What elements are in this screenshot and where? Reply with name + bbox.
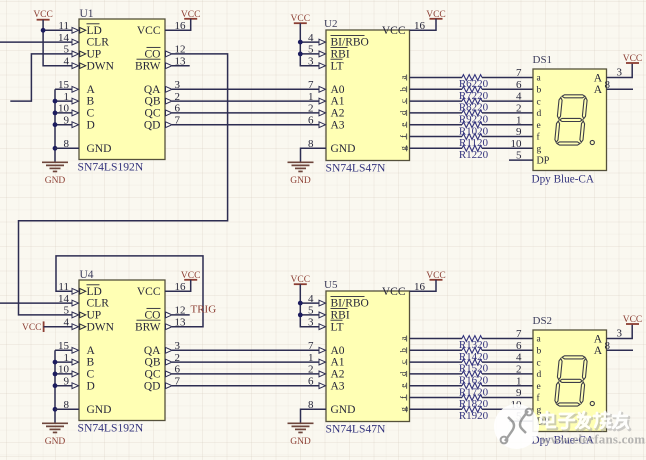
svg-text:VCC: VCC	[137, 25, 161, 37]
svg-text:VCC: VCC	[33, 10, 53, 20]
wire	[300, 302, 319, 304]
wire	[300, 41, 319, 43]
U5 pin 1 (A1)	[308, 352, 326, 365]
svg-text:SN74LS47N: SN74LS47N	[326, 162, 387, 175]
wire	[55, 112, 72, 114]
wire UP feed	[10, 54, 72, 101]
svg-text:1: 1	[516, 375, 522, 387]
svg-text:b: b	[537, 86, 542, 96]
wire DWN	[44, 326, 73, 328]
svg-text:3: 3	[617, 327, 623, 339]
svg-text:A3: A3	[331, 380, 345, 392]
power VCC above U1	[33, 10, 53, 20]
watermark text (decorative)	[541, 412, 645, 447]
wire	[55, 373, 72, 375]
svg-text:VCC: VCC	[382, 25, 406, 37]
7-segment digit glyph in DS1	[555, 95, 595, 145]
svg-text:DS2: DS2	[533, 315, 553, 327]
svg-text:R1920: R1920	[459, 410, 489, 422]
svg-text:2: 2	[516, 364, 522, 376]
DS2 pin 6	[516, 340, 522, 352]
svg-text:4: 4	[516, 352, 522, 364]
resistor R9 (220)	[410, 110, 534, 126]
svg-text:3: 3	[617, 66, 623, 78]
svg-text:A: A	[594, 333, 603, 345]
svg-text:VCC: VCC	[137, 286, 161, 298]
wire Q output to decoder	[172, 88, 319, 90]
DS2 pin 1	[516, 375, 522, 387]
svg-text:GND: GND	[87, 143, 112, 155]
ground GND below U2	[288, 162, 314, 186]
svg-text:2: 2	[516, 103, 522, 115]
power VCC at DS1	[623, 54, 643, 64]
U4 pin 1 (B)	[64, 352, 79, 365]
svg-text:A0: A0	[331, 84, 345, 96]
svg-text:C: C	[87, 369, 95, 381]
wire GND pin	[55, 408, 79, 410]
svg-text:VCC: VCC	[382, 286, 406, 298]
DS1 pin 7	[516, 67, 522, 79]
U4 pin 6 (QC)	[166, 364, 181, 377]
DS2 pin 4	[516, 352, 522, 364]
wire	[55, 408, 72, 410]
svg-text:BI/RBO: BI/RBO	[331, 37, 369, 49]
DS1 pin 10	[511, 138, 523, 150]
power VCC at U4 pin 16	[181, 271, 201, 281]
resistor R7 (220)	[410, 86, 534, 102]
svg-text:A1: A1	[331, 357, 345, 369]
svg-text:GND: GND	[331, 404, 356, 416]
wire	[300, 314, 319, 316]
svg-text:U4: U4	[80, 269, 94, 281]
junction	[298, 313, 303, 318]
U4 pin 11 (LD)	[58, 281, 85, 294]
resistor R16 (220)	[410, 371, 534, 387]
svg-text:9: 9	[516, 387, 522, 399]
wire	[55, 100, 72, 102]
junction	[53, 146, 58, 151]
svg-text:QB: QB	[145, 357, 161, 369]
wire pin16 to VCC	[410, 280, 437, 292]
counter U4 SN74LS192N	[78, 269, 166, 435]
wire GND pin 8	[301, 409, 327, 423]
svg-text:7: 7	[516, 328, 522, 340]
7-segment digit glyph in DS2	[555, 356, 595, 406]
U5 pin 2 (A2)	[308, 364, 326, 377]
svg-text:g: g	[537, 145, 542, 155]
DS1 pin 2	[516, 103, 522, 115]
wire TRIG stub	[172, 314, 190, 316]
wire pin8 stub	[607, 88, 634, 90]
wire Q output to decoder	[172, 385, 319, 387]
U4 pin 12 (CO)	[166, 305, 186, 318]
wire pin16 to VCC	[165, 280, 191, 292]
svg-text:SN74LS192N: SN74LS192N	[78, 161, 144, 174]
svg-text:A1: A1	[331, 96, 345, 108]
svg-text:U2: U2	[324, 18, 337, 30]
svg-text:5: 5	[64, 305, 70, 317]
svg-text:e: e	[537, 121, 541, 131]
U2 pin 5 (RBI)	[308, 44, 326, 57]
svg-text:QD: QD	[144, 380, 161, 392]
svg-text:B: B	[87, 357, 95, 369]
svg-text:9: 9	[516, 126, 522, 138]
resistor R17 (220)	[410, 383, 534, 399]
U5 pin 6 (A3)	[308, 376, 326, 389]
svg-text:SN74LS192N: SN74LS192N	[78, 422, 144, 435]
wire LD	[43, 29, 72, 31]
junction	[298, 40, 303, 45]
svg-text:CLR: CLR	[87, 37, 110, 49]
U1 pin 13 (BRW)	[166, 56, 187, 69]
svg-text:DP: DP	[537, 156, 550, 167]
svg-text:VCC: VCC	[22, 323, 42, 333]
U5 pin 16 (VCC)	[414, 281, 426, 293]
svg-text:RBI: RBI	[331, 310, 350, 322]
svg-text:QC: QC	[145, 369, 161, 381]
DS2 pin 2	[516, 364, 522, 376]
svg-text:GND: GND	[45, 437, 66, 447]
svg-text:QA: QA	[144, 84, 161, 96]
power VCC above U2	[291, 14, 311, 24]
power VCC at U4 DWN	[22, 321, 44, 333]
U1 pin 11 (LD)	[58, 20, 85, 33]
svg-text:A: A	[87, 84, 96, 96]
junction	[298, 301, 303, 306]
resistor R19 (220)	[410, 406, 534, 422]
U1 pin 3 (QA)	[166, 79, 181, 92]
U1 pin 15 (A)	[58, 79, 79, 92]
svg-text:2: 2	[308, 364, 314, 376]
svg-text:A: A	[594, 345, 603, 357]
gnd rail wire (A,B,C,D,GND)	[54, 350, 56, 423]
U2 pin 8 (GND)	[308, 138, 314, 150]
U2 pin 1 (A1)	[308, 91, 326, 104]
svg-text:GND: GND	[331, 143, 356, 155]
wire VCC to BI/RBI/LT	[300, 23, 319, 65]
wire BRW to LD loop	[56, 256, 203, 327]
wire VCC rail to LD and DWN	[43, 20, 72, 66]
svg-text:GND: GND	[290, 176, 311, 186]
ground GND below U5	[288, 423, 314, 447]
svg-text:QC: QC	[145, 108, 161, 120]
wire Q output to decoder	[172, 373, 319, 375]
svg-text:1: 1	[308, 91, 314, 103]
svg-text:b: b	[537, 347, 542, 357]
svg-text:6: 6	[516, 340, 522, 352]
svg-text:e: e	[537, 382, 541, 392]
svg-text:R1220: R1220	[459, 149, 489, 161]
wire Q output to decoder	[172, 349, 319, 351]
resistor R14 (220)	[410, 347, 534, 363]
svg-text:A: A	[594, 84, 603, 96]
U4 pin 5 (UP)	[64, 305, 86, 318]
svg-text:D: D	[87, 119, 95, 131]
DS2 pin 5	[516, 411, 522, 423]
U2 pin 3 (LT)	[308, 56, 326, 69]
svg-text:LD: LD	[87, 25, 102, 37]
U1 pin 4 (DWN)	[64, 56, 86, 69]
svg-text:CLR: CLR	[87, 298, 110, 310]
U2 pin 2 (A2)	[308, 103, 326, 116]
resistor R13 (220)	[410, 336, 534, 352]
ground GND below U4	[42, 423, 68, 447]
wire pin8 stub	[607, 349, 634, 351]
wire CLR from left edge	[0, 302, 72, 304]
U1 pin 10 (C)	[58, 103, 79, 116]
wire Q output to decoder	[172, 112, 319, 114]
junction	[53, 99, 58, 104]
U1 pin 9 (D)	[64, 115, 79, 128]
svg-text:c: c	[537, 358, 541, 368]
wire DP stub	[509, 159, 533, 161]
wire Q output to decoder	[172, 361, 319, 363]
wire Q output to decoder	[172, 100, 319, 102]
svg-text:BRW: BRW	[135, 321, 161, 333]
junction	[53, 407, 58, 412]
svg-text:C: C	[87, 108, 95, 120]
U2 pin 6 (A3)	[308, 115, 326, 128]
svg-text:RBI: RBI	[331, 49, 350, 61]
junction	[53, 383, 58, 388]
wire CLR from left edge	[0, 41, 72, 43]
wire pin3 to VCC	[607, 324, 633, 339]
U4 pin 9 (D)	[64, 376, 79, 389]
wire	[55, 124, 72, 126]
svg-text:QB: QB	[145, 96, 161, 108]
DS2 pin 3 (A common)	[617, 327, 623, 339]
svg-text:2: 2	[308, 103, 314, 115]
svg-text:SN74LS47N: SN74LS47N	[326, 423, 387, 436]
svg-text:U1: U1	[80, 8, 94, 20]
svg-text:1: 1	[308, 352, 314, 364]
svg-text:DWN: DWN	[87, 60, 115, 72]
U4 pin 15 (A)	[58, 340, 79, 353]
U4 pin 4 (DWN)	[64, 317, 86, 330]
svg-text:BI/RBO: BI/RBO	[331, 298, 369, 310]
wire	[300, 53, 319, 55]
svg-text:D: D	[87, 380, 95, 392]
svg-text:DS1: DS1	[533, 54, 553, 66]
decoder U5 SN74LS47N	[324, 279, 410, 436]
resistor R15 (220)	[410, 359, 534, 375]
svg-text:LD: LD	[87, 286, 102, 298]
resistor R12 (220)	[410, 145, 534, 161]
svg-text:UP: UP	[87, 49, 102, 61]
U4 pin 3 (QA)	[166, 340, 181, 353]
svg-text:A: A	[594, 72, 603, 84]
U1 pin 5 (UP)	[64, 44, 86, 57]
wire pin3 to VCC	[607, 63, 633, 78]
U4 pin 2 (QB)	[166, 352, 181, 365]
display DS2 Dpy Blue-CA	[532, 315, 607, 447]
U2 pin 4 (BI/RBO)	[308, 32, 326, 45]
decoder U2 SN74LS47N	[324, 18, 410, 175]
junction	[53, 372, 58, 377]
svg-text:6: 6	[308, 376, 314, 388]
wire pin16 to VCC	[410, 19, 437, 31]
resistor R10 (220)	[410, 122, 534, 138]
svg-text:A2: A2	[331, 108, 345, 120]
svg-text:A0: A0	[331, 345, 345, 357]
svg-text:A2: A2	[331, 369, 345, 381]
wire	[55, 349, 72, 351]
U1 pin 1 (B)	[64, 91, 79, 104]
wire	[55, 385, 72, 387]
svg-text:Dpy Blue-CA: Dpy Blue-CA	[532, 174, 594, 186]
wire GND pin	[55, 147, 79, 149]
power VCC at U5 pin 16	[426, 271, 446, 281]
svg-text:TRIG: TRIG	[191, 304, 217, 316]
svg-text:DWN: DWN	[87, 321, 115, 333]
svg-text:www.elecfans.com: www.elecfans.com	[541, 432, 645, 447]
DS2 pin 10	[511, 399, 523, 411]
resistor R8 (220)	[410, 98, 534, 114]
svg-text:GND: GND	[45, 176, 66, 186]
svg-text:UP: UP	[87, 310, 102, 322]
svg-text:GND: GND	[87, 404, 112, 416]
U4 pin 16 (VCC)	[175, 281, 187, 293]
DS1 pin 9	[516, 126, 522, 138]
resistor R18 (220)	[410, 395, 534, 411]
svg-text:1: 1	[516, 114, 522, 126]
svg-text:6: 6	[516, 79, 522, 91]
svg-text:d: d	[537, 370, 542, 380]
svg-text:c: c	[537, 97, 541, 107]
U5 pin 7 (A0)	[308, 340, 326, 353]
wire Q output to decoder	[172, 124, 319, 126]
U2 pin 16 (VCC)	[414, 20, 426, 32]
gnd rail wire (A,B,C,D,GND)	[54, 89, 56, 162]
svg-text:A3: A3	[331, 119, 345, 131]
U4 pin 13 (BRW)	[166, 317, 187, 330]
display DS1 Dpy Blue-CA	[532, 54, 607, 186]
svg-text:U5: U5	[324, 279, 338, 291]
U1 pin 2 (QB)	[166, 91, 181, 104]
U4 pin 7 (QD)	[166, 376, 181, 389]
counter U1 SN74LS192N	[78, 8, 166, 174]
wire GND pin 8	[301, 148, 327, 162]
svg-text:d: d	[537, 109, 542, 119]
power VCC at U2 pin 16	[426, 10, 446, 20]
power VCC at U1 pin 16	[181, 10, 201, 20]
svg-text:CO: CO	[145, 310, 161, 322]
U4 pin 10 (C)	[58, 364, 79, 377]
junction	[53, 122, 58, 127]
wire	[55, 361, 72, 363]
U4 pin 8 (GND)	[64, 399, 70, 411]
svg-text:A: A	[87, 345, 96, 357]
junction	[41, 28, 46, 33]
wire BRW stub	[172, 65, 190, 67]
U5 pin 8 (GND)	[308, 399, 314, 411]
svg-text:BRW: BRW	[135, 60, 161, 72]
svg-text:CO: CO	[145, 49, 161, 61]
U1 pin 6 (QC)	[166, 103, 181, 116]
wire VCC to BI/RBI/LT	[300, 284, 319, 327]
power VCC at DS2	[623, 315, 643, 325]
svg-text:GND: GND	[290, 437, 311, 447]
svg-text:QA: QA	[144, 345, 161, 357]
U5 pin 3 (LT)	[308, 317, 326, 330]
svg-text:QD: QD	[144, 119, 161, 131]
U5 pin 4 (BI/RBO)	[308, 293, 326, 306]
DS1 pin 1	[516, 114, 522, 126]
wire DP stub	[509, 420, 533, 422]
svg-text:10: 10	[511, 138, 523, 150]
ground GND below U1	[42, 162, 68, 186]
U1 pin 12 (CO)	[166, 44, 186, 57]
U1 pin 16 (VCC)	[175, 20, 187, 32]
U2 pin 7 (A0)	[308, 79, 326, 92]
resistor R6 (220)	[410, 75, 534, 91]
wire pin16 to VCC	[165, 19, 191, 31]
DS1 pin 8 (A common)	[605, 79, 611, 91]
wire U1.CO to U4.UP	[19, 54, 228, 315]
power VCC above U5	[291, 275, 311, 285]
svg-text:7: 7	[516, 67, 522, 79]
svg-text:LT: LT	[331, 321, 344, 333]
wire	[55, 88, 72, 90]
junction	[53, 111, 58, 116]
wire	[55, 147, 72, 149]
U4 pin 14 (CLR)	[58, 293, 79, 306]
resistor R11 (220)	[410, 134, 534, 150]
svg-text:7: 7	[308, 340, 314, 352]
svg-text:B: B	[87, 96, 95, 108]
svg-text:4: 4	[516, 91, 522, 103]
U1 pin 8 (GND)	[64, 138, 70, 150]
DS1 pin 4	[516, 91, 522, 103]
DS2 pin 9	[516, 387, 522, 399]
DS1 pin 5	[516, 150, 522, 162]
watermark logo circle (decorative)	[494, 404, 539, 449]
junction	[53, 360, 58, 365]
U5 pin 5 (RBI)	[308, 305, 326, 318]
svg-text:LT: LT	[331, 60, 344, 72]
DS1 pin 6	[516, 79, 522, 91]
junction	[298, 52, 303, 57]
DS2 pin 8 (A common)	[605, 340, 611, 352]
svg-text:6: 6	[308, 115, 314, 127]
U1 pin 7 (QD)	[166, 115, 181, 128]
U1 pin 14 (CLR)	[58, 32, 79, 45]
svg-text:7: 7	[308, 79, 314, 91]
DS1 pin 3 (A common)	[617, 66, 623, 78]
DS2 pin 7	[516, 328, 522, 340]
